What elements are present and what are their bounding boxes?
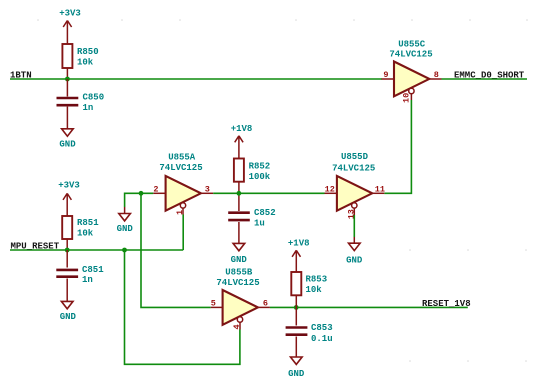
- ground below C850: [59, 129, 76, 150]
- svg-text:3: 3: [205, 184, 210, 194]
- pin 6 of U855B: [258, 298, 270, 308]
- svg-text:R851: R851: [77, 218, 99, 228]
- power +1V8 above R853: [288, 238, 310, 272]
- junction at R853 column: [294, 305, 299, 310]
- svg-text:74LVC125: 74LVC125: [389, 49, 432, 59]
- svg-text:11: 11: [375, 184, 385, 194]
- wire U855A output row: [213, 192, 324, 194]
- svg-text:GND: GND: [59, 140, 76, 150]
- wire enable return loop: [125, 250, 240, 364]
- ground below C852: [231, 243, 248, 264]
- svg-text:6: 6: [263, 298, 268, 308]
- wire MPU_RESET row: [10, 249, 183, 251]
- resistor R850: [62, 44, 98, 79]
- capacitor C850: [57, 79, 105, 129]
- svg-text:GND: GND: [60, 312, 77, 322]
- svg-text:RESET_1V8: RESET_1V8: [422, 299, 471, 309]
- svg-text:GND: GND: [117, 224, 134, 234]
- pin 4 of U855B: [232, 323, 242, 330]
- svg-text:74LVC125: 74LVC125: [159, 163, 202, 173]
- wire U855D enable to ground: [353, 215, 355, 237]
- svg-text:10k: 10k: [77, 58, 94, 68]
- capacitor C851: [56, 250, 104, 301]
- pin 11 of U855D: [372, 184, 385, 194]
- pin 13 of U855D: [346, 208, 356, 219]
- junction MPU_RESET at R851: [65, 248, 70, 253]
- wire EMMC output: [442, 78, 528, 80]
- pin 12 of U855D: [325, 184, 337, 194]
- svg-text:+3V3: +3V3: [58, 181, 80, 191]
- op-amp buffer U855A: [159, 153, 202, 211]
- svg-text:2: 2: [153, 184, 158, 194]
- svg-text:1: 1: [175, 210, 185, 215]
- resistor R853: [291, 272, 327, 307]
- capacitor C853: [286, 307, 333, 356]
- svg-text:EMMC_D0_SHORT: EMMC_D0_SHORT: [454, 71, 525, 81]
- pin 8 of U855C: [429, 70, 441, 80]
- svg-text:1n: 1n: [83, 103, 94, 113]
- svg-text:C853: C853: [311, 323, 333, 333]
- svg-text:+1V8: +1V8: [288, 238, 310, 248]
- svg-text:GND: GND: [288, 369, 305, 379]
- svg-text:12: 12: [325, 184, 335, 194]
- ground at U855A input: [117, 207, 134, 234]
- svg-text:GND: GND: [346, 255, 363, 265]
- wire U855A enable column: [182, 215, 184, 251]
- junction at R852 column: [237, 191, 242, 196]
- svg-text:C851: C851: [82, 265, 104, 275]
- svg-text:U855B: U855B: [225, 267, 253, 277]
- ground below C853: [288, 357, 305, 379]
- svg-text:R853: R853: [306, 275, 328, 285]
- svg-text:U855C: U855C: [398, 40, 426, 50]
- svg-text:100k: 100k: [249, 172, 271, 182]
- svg-text:10: 10: [401, 93, 411, 103]
- wire RESET_1V8 row: [270, 306, 468, 308]
- svg-text:4: 4: [232, 324, 242, 329]
- ground below C851: [60, 301, 77, 322]
- svg-text:1u: 1u: [254, 218, 265, 228]
- junction on 1BTN row: [65, 77, 70, 82]
- svg-text:GND: GND: [231, 255, 248, 265]
- junction at U855A input column: [139, 191, 144, 196]
- pin 5 of U855B: [211, 298, 223, 308]
- svg-text:8: 8: [434, 70, 439, 80]
- svg-text:R852: R852: [249, 162, 271, 172]
- svg-text:74LVC125: 74LVC125: [216, 278, 259, 288]
- wire 1BTN row: [10, 78, 382, 80]
- op-amp buffer U855B: [216, 267, 259, 325]
- svg-text:5: 5: [211, 298, 216, 308]
- svg-text:74LVC125: 74LVC125: [332, 163, 375, 173]
- resistor R851: [62, 216, 99, 250]
- svg-text:10k: 10k: [77, 228, 94, 238]
- power +3V3 above R851: [58, 181, 80, 216]
- pin 2 of U855A: [153, 184, 165, 194]
- svg-text:C850: C850: [83, 93, 105, 103]
- svg-text:9: 9: [383, 70, 388, 80]
- ground below U855D pin 13: [346, 237, 363, 265]
- svg-text:10k: 10k: [306, 285, 323, 295]
- power +3V3 top: [59, 9, 81, 45]
- svg-text:R850: R850: [77, 47, 99, 57]
- svg-text:0.1u: 0.1u: [311, 334, 333, 344]
- pin 10 of U855C: [401, 93, 411, 103]
- wire U855C enable to U855D output: [384, 100, 411, 193]
- pin 3 of U855A: [201, 184, 213, 194]
- pin 9 of U855C: [382, 70, 395, 80]
- capacitor C852: [228, 193, 275, 243]
- op-amp buffer U855D: [332, 152, 375, 211]
- power +1V8 above R852: [231, 124, 253, 159]
- svg-text:+3V3: +3V3: [59, 9, 81, 19]
- svg-text:U855D: U855D: [341, 152, 369, 162]
- op-amp buffer U855C: [389, 40, 432, 97]
- resistor R852: [234, 159, 271, 194]
- svg-text:+1V8: +1V8: [231, 124, 253, 134]
- svg-text:1BTN: 1BTN: [10, 71, 32, 81]
- wire pin2 to GND bend: [125, 193, 154, 207]
- pin 1 of U855A: [175, 208, 185, 215]
- svg-text:U855A: U855A: [168, 153, 196, 163]
- svg-text:MPU_RESET: MPU_RESET: [11, 242, 60, 252]
- svg-text:1n: 1n: [82, 275, 93, 285]
- wire input column down to U855B pin5: [141, 193, 211, 307]
- junction MPU_RESET at enable column: [122, 248, 127, 253]
- svg-text:C852: C852: [254, 208, 276, 218]
